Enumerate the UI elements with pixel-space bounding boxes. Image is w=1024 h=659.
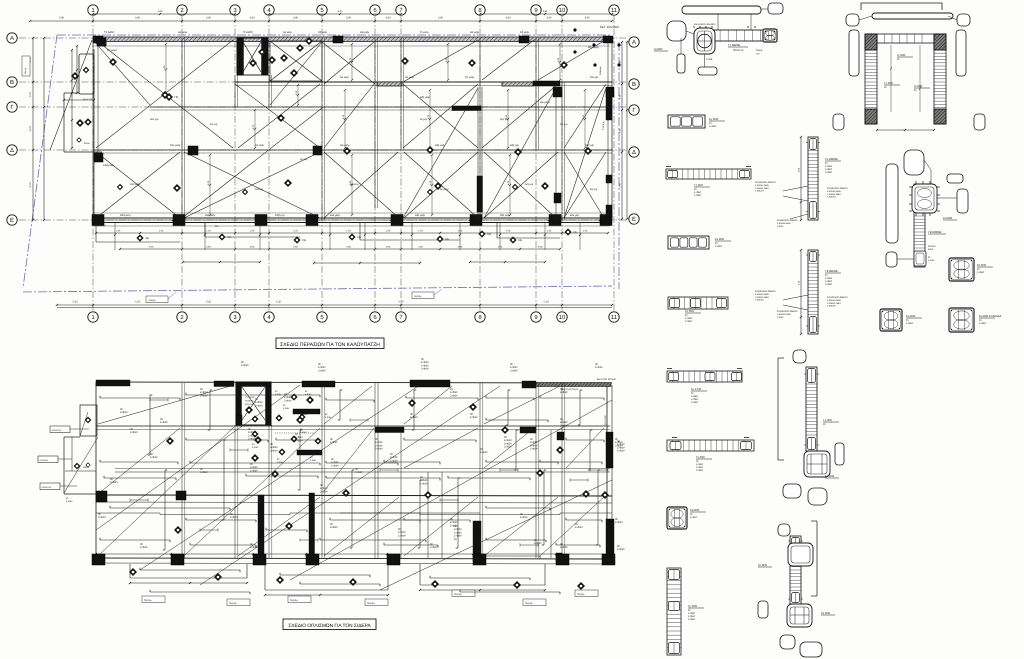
- svg-text:3.90: 3.90: [505, 17, 511, 20]
- elevator shaft walls: [237, 38, 268, 75]
- svg-text:1.45: 1.45: [547, 230, 552, 233]
- slab span diagonals top plan: [50, 40, 606, 218]
- detail portal frame side bars: [833, 14, 985, 131]
- svg-text:4.70: 4.70: [29, 91, 32, 97]
- svg-text:2.60: 2.60: [418, 246, 423, 249]
- svg-text:2.60: 2.60: [149, 246, 154, 249]
- svg-text:ΣΧΕΔΙΟ ΟΠΛΙΣΜΩΝ ΓΙΑ ΤΟΝ ΣΙΔΕΡΑ: ΣΧΕΔΙΟ ΟΠΛΙΣΜΩΝ ΓΙΑ ΤΟΝ ΣΙΔΕΡΑ: [288, 623, 371, 629]
- svg-text:1.45: 1.45: [583, 230, 588, 233]
- svg-text:4-Φ&#: 4-Φ&#: [110, 481, 118, 484]
- svg-text:πεζοδρ.: πεζοδρ.: [414, 295, 422, 298]
- bottom plan annotation clusters: [98, 358, 625, 551]
- svg-text:ΦΟΚΦ28/20 ΦΜ5/20: ΦΟΚΦ28/20 ΦΜ5/20: [755, 181, 776, 184]
- svg-text:Φ8 ΔΙΑΝ/20 ΦΔΑΝ/20: Φ8 ΔΙΑΝ/20 ΦΔΑΝ/20: [694, 23, 716, 26]
- detail column elevation T-mid lower: [755, 249, 848, 335]
- svg-text:2-Φ&#: 2-Φ&#: [284, 399, 292, 402]
- svg-text:4-Φ&#: 4-Φ&#: [330, 441, 338, 444]
- svg-text:Τζ Ω/Ω: Τζ Ω/Ω: [884, 81, 893, 85]
- svg-text:1-Φ/Β: 1-Φ/Β: [706, 58, 713, 61]
- bottom plan slab diagonals: [96, 385, 612, 590]
- detail section strip K3: [668, 115, 725, 128]
- svg-text:4.70: 4.70: [29, 182, 32, 188]
- svg-text:11: 11: [611, 7, 618, 14]
- detail section strip K5: [668, 236, 731, 249]
- svg-text:α) Ω/Ω: α) Ω/Ω: [654, 47, 662, 51]
- svg-text:ΣΧΕΔΙΟ ΠΕΡΑΣΙΩΝ ΓΙΑ ΤΟΝ ΚΑΛΟΥΠ: ΣΧΕΔΙΟ ΠΕΡΑΣΙΩΝ ΓΙΑ ΤΟΝ ΚΑΛΟΥΠΑΤΖΗ: [280, 342, 380, 348]
- svg-text:Φ\: Φ\: [283, 404, 286, 407]
- svg-text:Π9: Π9: [175, 95, 179, 99]
- bottom plan section line: [96, 513, 612, 515]
- svg-text:Κβ μ/μ: Κβ μ/μ: [560, 123, 568, 126]
- svg-text:4-Φ&#: 4-Φ&#: [300, 431, 307, 434]
- svg-text:2-Φ&#: 2-Φ&#: [530, 448, 538, 451]
- svg-text:10: 10: [559, 7, 566, 14]
- svg-text:Φ\: Φ\: [823, 423, 826, 426]
- svg-text:1.45: 1.45: [346, 230, 351, 233]
- svg-text:2-Φ&#: 2-Φ&#: [398, 534, 406, 537]
- svg-text:3.45: 3.45: [619, 128, 622, 133]
- svg-text:5.20: 5.20: [206, 301, 212, 304]
- svg-text:10: 10: [559, 314, 566, 321]
- svg-text:5.20: 5.20: [72, 301, 78, 304]
- bottom plan rebar lines: [100, 390, 604, 594]
- svg-text:Δζο με/μ: Δζο με/μ: [415, 214, 426, 217]
- svg-text:Κο με/μ: Κο με/μ: [255, 144, 264, 147]
- svg-text:Φ\: Φ\: [305, 390, 308, 393]
- svg-text:4-Φ&#: 4-Φ&#: [140, 546, 148, 549]
- svg-text:Δε μ/μ: Δε μ/μ: [420, 118, 428, 121]
- title box: plan for steel fixer: [283, 619, 376, 630]
- svg-text:Φ\: Φ\: [884, 86, 887, 89]
- svg-text:4-Φ&#: 4-Φ&#: [595, 366, 603, 369]
- svg-text:4-Φ&#: 4-Φ&#: [275, 393, 282, 396]
- svg-text:2-Φ&#: 2-Φ&#: [375, 448, 383, 451]
- svg-text:Δεε μ/μ: Δεε μ/μ: [255, 188, 264, 191]
- small slab load labels top plan: [95, 31, 599, 228]
- svg-text:Πεζοδρ.: Πεζοδρ.: [454, 593, 462, 596]
- svg-text:Κζ Ω/Ω: Κζ Ω/Ω: [821, 611, 830, 615]
- svg-text:Δζο με/μ: Δζο με/μ: [500, 214, 511, 217]
- beam soffit lines top plan: [93, 46, 610, 226]
- svg-text:Πεζοδρ.: Πεζοδρ.: [144, 599, 152, 602]
- svg-text:2-Φ&#: 2-Φ&#: [420, 482, 428, 485]
- svg-text:2-Φ&#: 2-Φ&#: [250, 469, 258, 472]
- svg-text:Δε με/μ: Δε με/μ: [340, 76, 349, 79]
- svg-text:6.20: 6.20: [338, 10, 343, 13]
- svg-text:4-ΦΕΔΘ-ΔΜΑ: 4-ΦΕΔΘ-ΔΜΑ: [777, 313, 791, 316]
- bottom plan small dimension marks: [130, 399, 608, 547]
- svg-text:Κοε με/μ: Κοε με/μ: [170, 144, 181, 147]
- detail portal frame right column: [914, 34, 946, 124]
- svg-text:Οικ.γρ.: Οικ.γρ.: [24, 67, 27, 74]
- svg-text:Δεε με/μ: Δεε με/μ: [205, 214, 215, 217]
- svg-text:ΦΟΚΦ28/20 ΦΜ5/20: ΦΟΚΦ28/20 ΦΜ5/20: [827, 187, 848, 190]
- svg-text:Δε με/μ: Δε με/μ: [405, 76, 414, 79]
- slab marker diamonds top plan: [71, 37, 592, 192]
- svg-text:2-ΦΔ/ΖΟ: 2-ΦΔ/ΖΟ: [827, 305, 836, 308]
- svg-text:4-Φ&#: 4-Φ&#: [160, 421, 168, 424]
- svg-text:1.45: 1.45: [418, 230, 423, 233]
- svg-text:4-Φ&#: 4-Φ&#: [305, 393, 312, 396]
- svg-text:4-Φ&#: 4-Φ&#: [355, 471, 363, 474]
- svg-text:ΜΔΤΑ: ΜΔΤΑ: [83, 466, 89, 469]
- svg-text:4-Φ&#: 4-Φ&#: [928, 259, 935, 262]
- svg-text:2-Φ&#: 2-Φ&#: [504, 446, 512, 449]
- svg-text:3.45: 3.45: [619, 94, 622, 99]
- svg-text:4-Φ&#: 4-Φ&#: [977, 271, 985, 274]
- svg-text:Δα με/μ: Δα με/μ: [178, 31, 188, 34]
- svg-text:Τθ ΩΒ/ΩΕ: Τθ ΩΒ/ΩΕ: [825, 269, 838, 273]
- svg-text:Διε με/μ: Διε με/μ: [340, 144, 350, 147]
- svg-text:Δε μ/μ: Δε μ/μ: [300, 158, 308, 161]
- svg-text:ΜΩμορφ: ΜΩμορφ: [599, 66, 602, 75]
- columns on beam A: [93, 36, 613, 43]
- svg-text:4-Φ&#: 4-Φ&#: [715, 245, 723, 248]
- svg-text:Δα 4.170: Δα 4.170: [83, 98, 93, 101]
- bottom plan marker diamonds: [129, 396, 609, 590]
- svg-text:B: B: [632, 81, 636, 88]
- svg-text:Πεζοδρ.: Πεζοδρ.: [367, 602, 375, 605]
- svg-text:2-Φ&#: 2-Φ&#: [318, 369, 326, 372]
- svg-text:2-ΦΔ/ΖΟ: 2-ΦΔ/ΖΟ: [827, 196, 836, 199]
- bottom plan step label boxes: [142, 590, 598, 606]
- top edge beam A: [93, 37, 610, 41]
- right edge wall blocks: [602, 88, 612, 218]
- svg-text:2-ΦΔΘΑ-ΔΜΟ: 2-ΦΔΘΑ-ΔΜΟ: [755, 296, 769, 299]
- right dimension chain: [619, 41, 629, 220]
- svg-text:Τγ με/μ: Τγ με/μ: [420, 31, 429, 34]
- svg-text:4-Φ&#: 4-Φ&#: [470, 416, 478, 419]
- svg-text:Δε μο/μ: Δε μο/μ: [440, 188, 449, 191]
- svg-text:4-ΦΕΔΘ-ΔΜΑ: 4-ΦΕΔΘ-ΔΜΑ: [827, 299, 841, 302]
- svg-text:4-ΦΕΔΘ-ΔΜΑ: 4-ΦΕΔΘ-ΔΜΑ: [827, 190, 841, 193]
- svg-text:2-Φ&#: 2-Φ&#: [320, 490, 328, 493]
- svg-text:Φ\: Φ\: [277, 458, 280, 461]
- svg-text:E: E: [10, 217, 14, 224]
- svg-text:4-Φ&#: 4-Φ&#: [560, 546, 568, 549]
- svg-text:ΦΑΣΔΩ: ΦΑΣΔΩ: [245, 403, 253, 406]
- svg-text:2-Φ&#: 2-Φ&#: [825, 283, 833, 286]
- svg-text:2-Φ&#: 2-Φ&#: [617, 450, 625, 453]
- svg-text:3.90: 3.90: [293, 17, 299, 20]
- bottom plan interior vertical beams: [182, 383, 565, 558]
- detail portal frame top bracket: [861, 3, 953, 19]
- svg-text:Κβ Ω/Ω: Κβ Ω/Ω: [690, 508, 699, 512]
- svg-text:Τιε με/μ: Τιε με/μ: [465, 76, 475, 79]
- svg-text:Τμ ΣΤ/Ω: Τμ ΣΤ/Ω: [691, 387, 701, 391]
- svg-text:ΠΕΡΑΣΙΑ: ΠΕΡΑΣΙΑ: [40, 459, 49, 462]
- marker diamonds below row E: [136, 228, 578, 243]
- svg-text:B: B: [10, 79, 14, 86]
- svg-text:Δζε μ/μ: Δζε μ/μ: [525, 183, 534, 186]
- detail column K1 with section: [886, 150, 968, 267]
- bottom ruler dimension line: [56, 301, 613, 308]
- shaft area annotations: [251, 390, 332, 464]
- svg-text:1.45: 1.45: [458, 230, 463, 233]
- svg-text:Δα με/μ: Δα με/μ: [470, 31, 480, 34]
- top plan grid verticals: [93, 16, 614, 311]
- svg-text:3.90: 3.90: [385, 17, 391, 20]
- svg-text:Δζο με/μ: Δζο με/μ: [435, 144, 446, 147]
- svg-text:Τγ Ω/Ω: Τγ Ω/Ω: [696, 455, 705, 459]
- bottom plan thick vertical walls: [258, 432, 614, 562]
- svg-text:Τα Ω/Ω: Τα Ω/Ω: [685, 309, 694, 313]
- svg-text:Κα Ω/Ω: Κα Ω/Ω: [943, 216, 952, 220]
- left boundary label box: [22, 56, 30, 76]
- detail section K8: [880, 309, 922, 331]
- svg-text:A: A: [632, 39, 636, 46]
- bottom plan outline: [96, 382, 612, 558]
- svg-text:ΠΕΡΙΔ 4Φ: ΠΕΡΙΔ 4Φ: [733, 49, 744, 52]
- svg-text:Δζο μ/μ: Δζο μ/μ: [510, 144, 519, 147]
- svg-text:Πεζοδρ.: Πεζοδρ.: [577, 593, 585, 596]
- site boundary dash-dot line (blue): [23, 35, 619, 292]
- svg-text:1.45: 1.45: [293, 230, 298, 233]
- left wing outline: [63, 38, 117, 215]
- svg-text:4-Φ&#: 4-Φ&#: [330, 526, 338, 529]
- in-room vertical dimension chains top plan: [163, 43, 586, 216]
- detail column elevation T-mid upper: [755, 136, 848, 228]
- svg-text:Τ2 Δε/Μ: Τ2 Δε/Μ: [104, 31, 114, 34]
- columns on bottom plan row E: [92, 554, 615, 565]
- beam on row B: [235, 81, 612, 86]
- svg-text:2.60: 2.60: [206, 246, 211, 249]
- bottom boundary label box: [146, 289, 442, 303]
- svg-text:1.45: 1.45: [116, 230, 121, 233]
- svg-text:Πεζοδρ.: Πεζοδρ.: [229, 602, 237, 605]
- svg-text:2-ΦΔΘΑ-ΔΜΟ: 2-ΦΔΘΑ-ΔΜΟ: [755, 187, 769, 190]
- detail portal frame beam: [877, 34, 934, 112]
- svg-text:ΔΔ με/μ: ΔΔ με/μ: [360, 31, 370, 34]
- svg-text:Κβ με/μ: Κβ με/μ: [520, 31, 530, 34]
- svg-text:2-Φ&#: 2-Φ&#: [270, 449, 278, 452]
- svg-text:Κγ Ω/Ω: Κγ Ω/Ω: [709, 117, 718, 121]
- detail section K2: [667, 507, 706, 529]
- svg-text:Τμ Ω/Ω: Τμ Ω/Ω: [688, 604, 697, 608]
- svg-text:Τε Δα/Μ: Τε Δα/Μ: [243, 31, 253, 34]
- svg-text:4-Φ&#: 4-Φ&#: [979, 322, 987, 325]
- svg-text:4-Φ&#: 4-Φ&#: [480, 451, 488, 454]
- interior wall black segments: [477, 87, 614, 212]
- svg-text:Κο: Κο: [215, 225, 219, 228]
- detail beam strip T11: [667, 438, 754, 473]
- svg-text:2.60: 2.60: [346, 246, 351, 249]
- svg-text:Δεε με/μ: Δεε με/μ: [330, 214, 340, 217]
- svg-text:Διε με/μ: Διε με/μ: [540, 101, 550, 104]
- svg-text:2.60: 2.60: [386, 246, 391, 249]
- svg-text:4-Φ&#: 4-Φ&#: [120, 411, 128, 414]
- svg-text:4-Φ&#: 4-Φ&#: [277, 461, 284, 464]
- svg-text:3.90: 3.90: [438, 17, 444, 20]
- svg-text:3.90: 3.90: [135, 17, 141, 20]
- svg-text:2-Φ&#: 2-Φ&#: [510, 369, 518, 372]
- detail vertical strip T12: [667, 568, 704, 655]
- svg-text:2-Φ&#: 2-Φ&#: [696, 469, 704, 472]
- svg-text:Τε Ω/Ω: Τε Ω/Ω: [914, 84, 922, 88]
- svg-text:4-Φ&#: 4-Φ&#: [709, 125, 717, 128]
- bottom plan interior horizontal beams: [96, 409, 612, 513]
- svg-text:ΦΟΚΦ28/20 ΦΜ5/20: ΦΟΚΦ28/20 ΦΜ5/20: [755, 290, 776, 293]
- svg-text:2-ΦΔΘΑ-ΔΜΟ: 2-ΦΔΘΑ-ΔΜΟ: [827, 302, 841, 305]
- svg-text:Κα Ω/Ω: Κα Ω/Ω: [825, 474, 834, 478]
- svg-text:Κ18 μο/μ: Κ18 μο/μ: [103, 164, 114, 167]
- svg-text:Δζο με/μ: Δζο με/μ: [420, 96, 431, 99]
- svg-text:Τζ ΩΒ/ΩΕ: Τζ ΩΒ/ΩΕ: [728, 43, 741, 47]
- svg-text:Κιε μ/μ: Κιε μ/μ: [590, 76, 599, 79]
- columns on row E: [92, 215, 612, 226]
- svg-text:4.85: 4.85: [543, 10, 548, 13]
- svg-text:Δε με/μ: Δε με/μ: [283, 31, 292, 34]
- svg-text:5.20: 5.20: [543, 301, 549, 304]
- svg-text:11: 11: [611, 314, 618, 321]
- svg-text:Ρο μεμο: Ρο μεμο: [107, 49, 117, 52]
- detail beam strip T9: [668, 297, 728, 323]
- svg-text:ΠΑΡΑΠΤΑ: ΠΑΡΑΠΤΑ: [52, 429, 62, 432]
- stairwell X brace: [270, 41, 322, 81]
- svg-text:Δ24 με/μ: Δ24 με/μ: [120, 214, 131, 217]
- svg-text:Κε Ω/Ω: Κε Ω/Ω: [715, 237, 724, 241]
- svg-text:ΦΟΚΦ28/20 ΦΜ5/20: ΦΟΚΦ28/20 ΦΜ5/20: [777, 310, 798, 313]
- detail column elevation with bracket upper: [778, 350, 844, 505]
- svg-text:4-Φ&#: 4-Φ&#: [230, 516, 238, 519]
- detail section K6 stairs: [949, 308, 1002, 332]
- svg-text:2-Φ&#: 2-Φ&#: [685, 320, 693, 323]
- detail beam D1 top bar: [682, 3, 783, 31]
- detail portal frame left column: [865, 34, 900, 124]
- detail beam D1 elevation: [654, 21, 777, 75]
- svg-text:A: A: [10, 35, 14, 42]
- svg-text:ΠΑΡΑΠΤΑ: ΠΑΡΑΠΤΑ: [42, 486, 52, 489]
- svg-text:4-Φ&#: 4-Φ&#: [430, 546, 438, 549]
- svg-text:2-Φ&#: 2-Φ&#: [255, 404, 263, 407]
- svg-text:Φ\: Φ\: [914, 89, 917, 92]
- detail beam strip T10: [667, 369, 742, 405]
- svg-text:2.60: 2.60: [498, 246, 503, 249]
- svg-text:ΦΟΚΦ28/20 ΦΜ5/20: ΦΟΚΦ28/20 ΦΜ5/20: [827, 296, 848, 299]
- svg-text:Κορ με/μ: Κορ με/μ: [95, 224, 106, 227]
- svg-text:2-Φ&#: 2-Φ&#: [825, 171, 833, 174]
- svg-text:ΦΟΚΦ28/20 ΦΜ5/20: ΦΟΚΦ28/20 ΦΜ5/20: [777, 219, 798, 222]
- top dimension chain: [29, 10, 613, 22]
- bottom plan elevator shaft: [214, 381, 271, 425]
- svg-text:4-ΦΕΔΘ-ΔΜΑ: 4-ΦΕΔΘ-ΔΜΑ: [777, 222, 791, 225]
- top plan grid bubbles top: [88, 5, 619, 15]
- svg-text:1.45: 1.45: [506, 230, 511, 233]
- svg-text:3.90: 3.90: [346, 17, 352, 20]
- svg-text:2.60: 2.60: [458, 246, 463, 249]
- svg-text:2.60: 2.60: [538, 246, 543, 249]
- svg-text:2-Φ&#: 2-Φ&#: [560, 424, 568, 427]
- svg-text:Τιε ΩΒ/ΩΕ: Τιε ΩΒ/ΩΕ: [825, 157, 838, 161]
- svg-text:2-Φ&#: 2-Φ&#: [777, 225, 784, 228]
- svg-text:Κη Ω/Ω: Κη Ω/Ω: [906, 314, 915, 318]
- svg-text:Φ\: Φ\: [66, 497, 69, 500]
- svg-text:Τ14 μ/μ: Τ14 μ/μ: [602, 121, 605, 130]
- svg-text:4-Φ&#: 4-Φ&#: [250, 546, 258, 549]
- svg-text:2-Φ&#: 2-Φ&#: [694, 194, 702, 197]
- svg-text:4-Φ&#: 4-Φ&#: [130, 431, 138, 434]
- svg-text:3.90: 3.90: [546, 17, 552, 20]
- top plan grid horizontals: [19, 38, 627, 220]
- detail section K9: [949, 258, 993, 281]
- svg-text:4-Φ&#: 4-Φ&#: [283, 407, 290, 410]
- svg-text:Τε Ω/Ω: Τε Ω/Ω: [897, 53, 905, 57]
- svg-text:Τζ Ω/Ω: Τζ Ω/Ω: [694, 183, 703, 187]
- svg-text:Κο μ/μ: Κο μ/μ: [210, 123, 218, 126]
- top plan interior vertical beams: [93, 38, 612, 220]
- balcony step lines below row E: [96, 222, 560, 242]
- svg-text:4-Φ&#: 4-Φ&#: [241, 364, 249, 367]
- svg-text:Φ\: Φ\: [275, 390, 278, 393]
- svg-text:3.45: 3.45: [619, 183, 622, 188]
- svg-text:ΤΒ Ω/ΩΜΕ: ΤΒ Ω/ΩΜΕ: [928, 230, 942, 234]
- svg-text:Πεζοδρ.: Πεζοδρ.: [290, 599, 298, 602]
- svg-text:4-Φ&#: 4-Φ&#: [66, 500, 73, 503]
- svg-text:Κβ με/μ: Κβ με/μ: [318, 31, 328, 34]
- svg-text:2.60: 2.60: [293, 246, 298, 249]
- svg-text:ΤΟ ΔΦΩΣ: ΤΟ ΔΦΩΣ: [245, 396, 255, 399]
- svg-text:Μετ: ΣτηΛιθοδ: Μετ: ΣτηΛιθοδ: [600, 25, 619, 29]
- svg-text:Δζο μ/μ: Δζο μ/μ: [500, 118, 509, 121]
- detail column elevation with bracket lower: [758, 521, 835, 657]
- svg-text:3.90: 3.90: [206, 17, 212, 20]
- svg-text:1.45: 1.45: [250, 230, 255, 233]
- svg-text:4-Φ&#: 4-Φ&#: [520, 516, 528, 519]
- svg-text:4-Φ&#: 4-Φ&#: [200, 471, 208, 474]
- svg-text:Πεζοδ: Πεζοδ: [756, 49, 763, 52]
- columns on bottom plan mid band: [96, 491, 186, 502]
- svg-text:Κα μ/μ: Κα μ/μ: [590, 188, 598, 191]
- svg-text:ΦΡΑΝΔ: ΦΡΑΝΔ: [928, 245, 936, 248]
- svg-text:2-ΦΔΘΑ-ΔΜΟ: 2-ΦΔΘΑ-ΔΜΟ: [827, 193, 841, 196]
- svg-text:4-Φ&#: 4-Φ&#: [575, 526, 583, 529]
- svg-text:Τζ Ω/Ω: Τζ Ω/Ω: [823, 418, 832, 422]
- svg-text:2-ΦΔ/ΖΟ: 2-ΦΔ/ΖΟ: [755, 299, 764, 302]
- svg-text:Κμ Ω/Ω ΚΛΙΜΑΚΑ: Κμ Ω/Ω ΚΛΙΜΑΚΑ: [979, 314, 1002, 318]
- svg-text:Τμ Ω/Ω: Τμ Ω/Ω: [758, 563, 767, 567]
- svg-text:4-Φ&#: 4-Φ&#: [252, 446, 259, 449]
- svg-text:3.90: 3.90: [249, 17, 255, 20]
- bottom plan left protrusions: [38, 405, 98, 503]
- svg-text:2-Φ&#: 2-Φ&#: [331, 464, 339, 467]
- svg-text:4-Φ&#: 4-Φ&#: [617, 548, 625, 551]
- svg-text:4.70: 4.70: [29, 125, 32, 131]
- svg-text:Κζ Ω/Ω: Κζ Ω/Ω: [977, 263, 986, 267]
- svg-text:5.08: 5.08: [158, 10, 163, 13]
- svg-text:Δζ μο/μ: Δζ μο/μ: [350, 183, 359, 186]
- svg-text:Δαε μ/μ: Δαε μ/μ: [150, 118, 159, 121]
- svg-text:Φεαο: Φεαο: [84, 142, 90, 145]
- svg-text:4-Φ&#: 4-Φ&#: [300, 413, 308, 416]
- svg-text:Κ[: Κ[: [454, 538, 457, 541]
- detail beam strip T7: [666, 167, 751, 198]
- svg-text:Κοβ μ/μ: Κοβ μ/μ: [275, 214, 285, 217]
- top plan row bubbles left: [7, 33, 17, 225]
- svg-text:Δ: Δ: [632, 149, 636, 156]
- svg-text:1.45: 1.45: [206, 230, 211, 233]
- svg-text:ΜΗ ΣΛΑΡ: ΜΗ ΣΛΑΡ: [604, 415, 607, 425]
- svg-text:4-Φ&#: 4-Φ&#: [150, 456, 158, 459]
- bottom plan row E beam: [92, 553, 612, 564]
- svg-text:1.45: 1.45: [386, 230, 391, 233]
- svg-text:Πεζοδρ.: Πεζοδρ.: [525, 602, 533, 605]
- bottom plan top edge beam blocks: [96, 378, 616, 433]
- svg-text:2-Φ&#: 2-Φ&#: [421, 368, 429, 371]
- svg-text:2-Φ&#: 2-Φ&#: [688, 618, 696, 621]
- svg-text:4-Φ&#: 4-Φ&#: [310, 459, 317, 462]
- left dimension chain: [29, 37, 45, 221]
- svg-text:2-ΦΔ/ΖΟ: 2-ΦΔ/ΖΟ: [755, 190, 764, 193]
